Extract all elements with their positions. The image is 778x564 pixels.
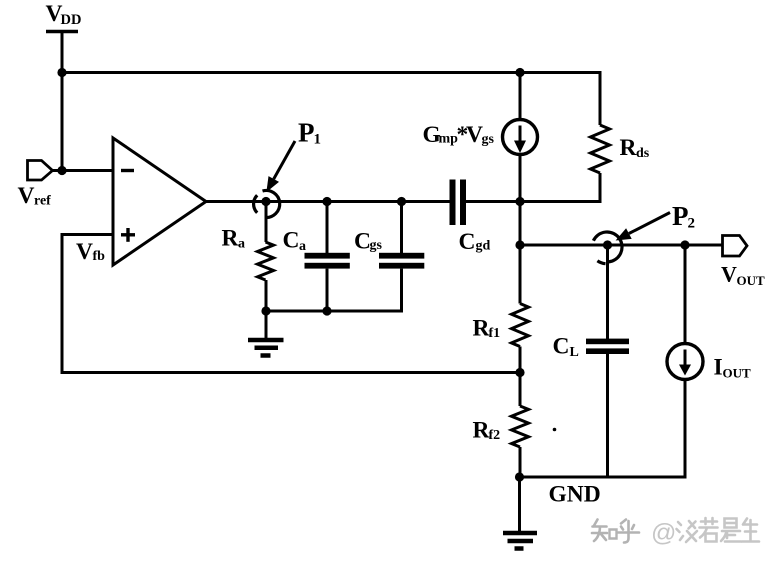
op-amp plus sign	[121, 228, 135, 242]
arrow to P1	[266, 141, 295, 192]
label Rf2	[473, 418, 501, 444]
supply VDD bar	[46, 30, 78, 34]
wire top rail	[62, 71, 602, 74]
current source Gmp*Vgs	[503, 73, 538, 202]
port Vout connector	[723, 236, 748, 257]
label Ra	[222, 226, 246, 252]
node junction Ca bottom	[322, 306, 331, 315]
label Vref	[18, 183, 52, 209]
label CL	[553, 334, 579, 361]
wire gate bottom rail	[266, 310, 403, 313]
svg-text:mp: mp	[439, 132, 459, 147]
node P2 marker	[593, 232, 622, 264]
wire Rds bottom to drain	[520, 200, 602, 203]
svg-text:GND: GND	[549, 482, 601, 508]
node feedback tap	[515, 368, 524, 377]
svg-text:C: C	[354, 229, 371, 255]
svg-text:OUT: OUT	[737, 273, 766, 288]
capacitor Cgs	[379, 202, 424, 313]
node junction Iout top	[680, 240, 689, 249]
svg-text:ds: ds	[636, 146, 650, 161]
arrow to P2	[616, 213, 670, 241]
resistor Ra	[258, 202, 274, 312]
svg-text:L: L	[570, 345, 579, 360]
wire GND rail	[520, 476, 687, 479]
svg-text:I: I	[714, 355, 723, 381]
label Vout	[721, 262, 765, 289]
svg-text:2: 2	[688, 216, 696, 232]
wire Cgd to drain	[466, 200, 520, 203]
svg-text:C: C	[459, 229, 476, 255]
capacitor Ca	[305, 202, 350, 312]
label P1	[298, 118, 321, 148]
node output junction	[515, 240, 524, 249]
node junction Cgs top	[397, 197, 406, 206]
wire output rail	[520, 244, 723, 247]
svg-text:R: R	[222, 226, 240, 252]
svg-text:1: 1	[314, 132, 322, 148]
svg-text:P: P	[672, 201, 689, 231]
wire noninverting input	[62, 233, 113, 236]
svg-text:gs: gs	[370, 238, 383, 253]
ground gate network	[248, 311, 284, 356]
capacitor Cgd	[450, 180, 467, 226]
node P1 marker	[254, 190, 280, 217]
resistor Rf2	[512, 373, 529, 478]
node drain junction	[515, 197, 524, 206]
wire drain vertical	[519, 202, 522, 246]
label Ca	[283, 228, 307, 255]
label Rf1	[473, 316, 501, 342]
wire inverting input	[53, 169, 114, 172]
label Iout	[714, 355, 752, 381]
svg-text:V: V	[721, 262, 737, 287]
resistor Rds	[591, 71, 610, 203]
label Cgs	[354, 229, 383, 255]
node GND junction	[515, 472, 524, 481]
node junction top rail Gmp	[515, 68, 524, 77]
svg-text:OUT: OUT	[723, 366, 752, 381]
svg-text:@: @	[651, 519, 676, 547]
svg-text:a: a	[238, 237, 245, 252]
current source Iout	[667, 245, 703, 479]
char zhi	[592, 520, 607, 542]
port Vref connector	[28, 161, 53, 181]
label Cgd	[459, 229, 491, 255]
char shi	[721, 519, 741, 542]
label Gmp*Vgs	[423, 122, 495, 148]
svg-text:P: P	[298, 118, 315, 148]
node junction Ca top	[322, 197, 331, 206]
ground GND	[503, 477, 537, 549]
label P2	[672, 201, 695, 232]
node junction Ra bottom	[261, 306, 270, 315]
svg-text:f2: f2	[489, 428, 501, 443]
char sheng	[742, 519, 759, 542]
label Vfb	[76, 239, 105, 265]
node Vref junction	[57, 166, 66, 175]
wire VDD vertical	[61, 32, 64, 171]
svg-text:gd: gd	[476, 239, 491, 254]
label Rds	[620, 135, 650, 161]
op-amp minus sign	[121, 169, 134, 172]
char ruo	[700, 518, 718, 542]
svg-text:gs: gs	[482, 132, 495, 147]
supply VDD label	[46, 1, 82, 28]
svg-text:V: V	[466, 122, 483, 148]
wire feedback left vertical	[61, 233, 64, 374]
capacitor CL	[586, 245, 629, 477]
op-amp U1 body	[113, 138, 206, 265]
node junction VDD-rail	[57, 68, 66, 77]
svg-text:f1: f1	[489, 326, 501, 341]
wire op-amp output	[204, 200, 450, 203]
char hu	[618, 520, 639, 543]
svg-text:DD: DD	[61, 12, 82, 28]
stray dot	[553, 428, 557, 432]
label GND	[549, 482, 601, 508]
svg-text:V: V	[76, 239, 93, 265]
svg-text:a: a	[299, 239, 306, 254]
svg-text:fb: fb	[93, 249, 106, 264]
wire feedback bottom rail	[61, 371, 521, 374]
svg-text:R: R	[620, 135, 638, 161]
svg-text:C: C	[283, 228, 300, 254]
watermark zhihu	[592, 518, 759, 547]
svg-text:C: C	[553, 334, 570, 360]
svg-text:ref: ref	[34, 194, 51, 209]
svg-text:V: V	[18, 183, 35, 209]
resistor Rf1	[512, 245, 529, 373]
char dan	[677, 521, 698, 542]
